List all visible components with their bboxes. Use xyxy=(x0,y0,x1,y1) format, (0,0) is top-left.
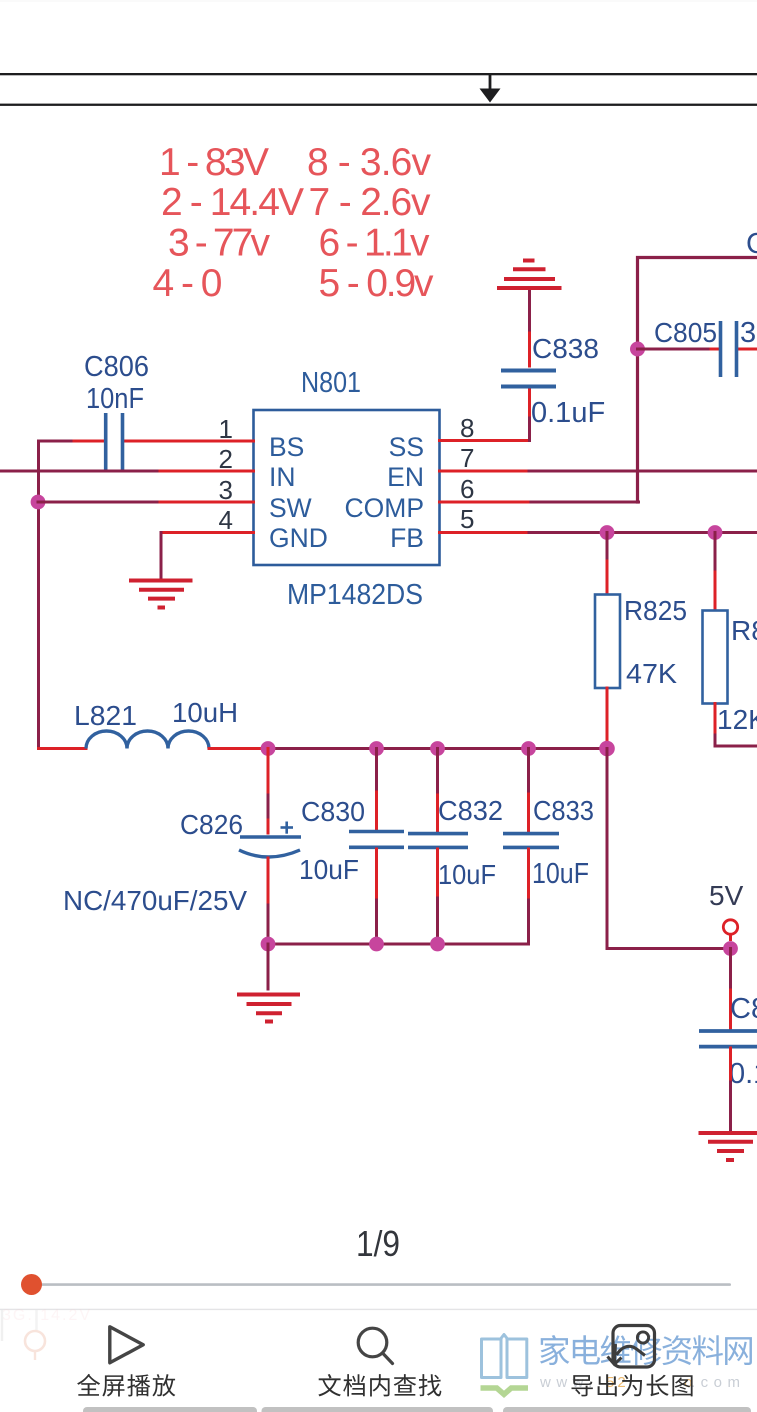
svg-text:R825: R825 xyxy=(624,595,687,626)
inductor L821 xyxy=(86,731,209,749)
svg-text:7 - 2.6v: 7 - 2.6v xyxy=(309,181,432,224)
svg-text:BS: BS xyxy=(269,432,304,462)
node junction FB / R825 xyxy=(600,525,615,540)
wire COMP vertical net to top xyxy=(638,258,757,503)
toolbar separator xyxy=(0,1309,757,1310)
wire R825 top xyxy=(606,533,609,595)
wire pin5 FB to right edge xyxy=(440,531,757,534)
svg-text:C838: C838 xyxy=(532,333,599,364)
resistor R825 xyxy=(595,595,620,689)
ground output bus xyxy=(237,995,300,1022)
node junction C830 xyxy=(369,741,384,756)
svg-text:10uF: 10uF xyxy=(438,859,496,890)
wire left vertical rail xyxy=(37,441,40,749)
capacitor C832 xyxy=(408,834,468,848)
svg-text:0.1u: 0.1u xyxy=(729,1058,757,1090)
button label 全屏播放 xyxy=(77,1374,175,1397)
wire R8xx top xyxy=(714,533,717,611)
wire pin4 GND xyxy=(161,533,254,580)
slider knob xyxy=(21,1274,42,1295)
ghost schematic remnants xyxy=(2,1307,92,1360)
svg-text:R82: R82 xyxy=(731,615,757,646)
capacitor C830 xyxy=(349,832,404,848)
svg-text:1/9: 1/9 xyxy=(356,1223,400,1264)
wire pin7 EN to right edge xyxy=(440,470,757,473)
svg-text:.com: .com xyxy=(691,1374,746,1391)
watermark book logo xyxy=(481,1335,529,1395)
icon search magnifier xyxy=(358,1328,392,1363)
arrow marker down xyxy=(480,75,501,103)
bus line top xyxy=(0,73,757,75)
svg-text:COMP: COMP xyxy=(345,493,425,523)
op-amp U1: regulator IC N801 body xyxy=(254,410,440,565)
node junction C832 xyxy=(430,741,445,756)
svg-text:C830: C830 xyxy=(301,796,365,827)
wire C833 bottom xyxy=(527,849,530,944)
svg-text:5V: 5V xyxy=(709,880,744,911)
node junction bus C826 xyxy=(261,937,276,952)
svg-text:10uH: 10uH xyxy=(172,697,238,728)
wire inductor output rail xyxy=(209,747,607,750)
svg-text:5: 5 xyxy=(460,504,474,534)
svg-text:MP1482DS: MP1482DS xyxy=(287,579,423,611)
wire pin1 BS left segment xyxy=(39,440,254,443)
wire pin3 SW xyxy=(38,501,254,504)
svg-text:C805: C805 xyxy=(654,317,717,348)
wire C8xx to ground xyxy=(729,1048,732,1131)
slider track xyxy=(31,1283,731,1286)
wire pin8 SS xyxy=(440,290,530,441)
resistor R8xx xyxy=(703,611,728,704)
svg-text:6: 6 xyxy=(460,474,474,504)
wire C832 bottom xyxy=(436,849,439,944)
ground top (above C838) xyxy=(497,261,562,289)
svg-text:2 - 14.4V: 2 - 14.4V xyxy=(161,181,304,224)
watermark text 家电维修资料网 xyxy=(540,1335,752,1365)
wire C833 top xyxy=(527,749,530,833)
svg-text:4 - 0: 4 - 0 xyxy=(153,262,223,305)
icon play full screen xyxy=(110,1327,143,1363)
watermark url row xyxy=(539,1374,746,1391)
svg-text:0.1uF: 0.1uF xyxy=(531,397,605,429)
svg-text:C806: C806 xyxy=(84,351,149,383)
ground bottom right xyxy=(699,1133,757,1160)
node junction pin3 rail xyxy=(31,495,46,510)
port 5V terminal xyxy=(723,920,737,934)
node junction C833 xyxy=(521,741,536,756)
node junction C826 xyxy=(261,741,276,756)
wire pin2 IN from left edge xyxy=(0,470,254,473)
svg-text:10nF: 10nF xyxy=(86,383,144,415)
svg-text:C832: C832 xyxy=(438,795,503,826)
svg-text:SW: SW xyxy=(269,493,312,523)
svg-text:FB: FB xyxy=(390,523,424,553)
svg-text:C833: C833 xyxy=(533,795,594,826)
svg-text:4: 4 xyxy=(219,505,233,535)
svg-text:C8: C8 xyxy=(730,993,757,1025)
svg-text:C8: C8 xyxy=(746,228,757,260)
svg-text:3: 3 xyxy=(740,317,756,349)
node junction bus C830 xyxy=(369,937,384,952)
wire C830 bottom xyxy=(375,849,378,944)
bottom thumbnail bar 2 xyxy=(262,1407,494,1412)
wire 5V stub xyxy=(729,934,732,941)
wire C826 top xyxy=(267,749,270,834)
capacitor C8xx bottom right xyxy=(699,1031,757,1047)
svg-text:5 - 0.9v: 5 - 0.9v xyxy=(319,262,435,305)
svg-text:L821: L821 xyxy=(74,700,137,731)
svg-text:8: 8 xyxy=(460,413,474,443)
node junction R825 bottom xyxy=(599,741,615,757)
svg-text:IN: IN xyxy=(269,462,296,492)
bottom thumbnail bar 3 xyxy=(503,1407,751,1412)
svg-text:SS: SS xyxy=(389,432,424,462)
annotation pin voltages xyxy=(153,141,435,305)
svg-text:GND: GND xyxy=(269,523,328,553)
wire C805 branch xyxy=(638,348,757,351)
svg-text:3 - 77v: 3 - 77v xyxy=(168,221,271,264)
svg-text:C826: C826 xyxy=(180,809,243,840)
capacitor C826 polarized xyxy=(239,822,301,858)
wire C826 bottom xyxy=(267,858,270,944)
wire pin6 COMP xyxy=(440,501,639,504)
wire C826 to ground xyxy=(267,944,270,989)
svg-text:7: 7 xyxy=(460,443,474,473)
svg-text:N801: N801 xyxy=(301,367,361,399)
wire C830 top xyxy=(375,749,378,831)
button label 导出为长图 xyxy=(572,1374,693,1396)
svg-text:10uF: 10uF xyxy=(532,858,589,890)
node junction bus C832 xyxy=(430,937,445,952)
wire R825 bottom xyxy=(606,688,609,744)
node junction FB / R8xx xyxy=(708,525,723,540)
ground GND pin xyxy=(129,581,193,608)
wire 5V to C8xx xyxy=(729,949,732,1030)
wire ground bus bottom xyxy=(268,943,529,946)
capacitor C805 xyxy=(721,321,737,377)
wire feedback net down-right xyxy=(607,749,731,949)
svg-text:10uF: 10uF xyxy=(299,854,359,885)
svg-text:8 - 3.6v: 8 - 3.6v xyxy=(307,141,432,184)
wire R8xx bottom to right edge xyxy=(715,704,757,747)
button label 文档内查找 xyxy=(318,1374,441,1396)
svg-text:EN: EN xyxy=(387,462,424,492)
svg-text:3G..14.2V: 3G..14.2V xyxy=(2,1307,92,1324)
node junction C805 tap xyxy=(630,342,645,357)
bus line bottom xyxy=(0,104,757,106)
svg-text:47K: 47K xyxy=(626,658,677,689)
bottom thumbnail bar 1 xyxy=(83,1407,257,1412)
svg-text:NC/470uF/25V: NC/470uF/25V xyxy=(63,885,247,916)
svg-text:12K: 12K xyxy=(717,704,757,735)
node junction 5V xyxy=(723,941,738,956)
icon export image xyxy=(608,1326,655,1368)
capacitor C833 xyxy=(503,834,559,848)
svg-text:6 - 1.1v: 6 - 1.1v xyxy=(319,221,431,264)
svg-text:1 - 83V: 1 - 83V xyxy=(159,141,269,184)
wire C832 top xyxy=(436,749,439,833)
wire SW rail to inductor xyxy=(39,747,87,750)
capacitor C806 xyxy=(106,413,123,471)
capacitor C838 xyxy=(501,371,556,387)
